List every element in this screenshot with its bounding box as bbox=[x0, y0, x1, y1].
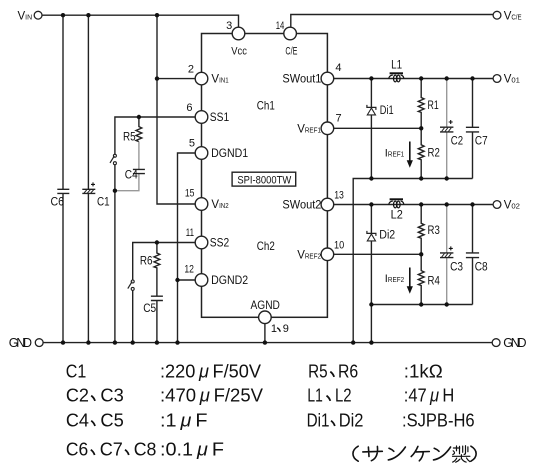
label R2 bbox=[428, 148, 440, 160]
resistor R2 bbox=[418, 128, 424, 178]
svg-text:DGND2: DGND2 bbox=[211, 273, 248, 287]
terminal V02 bbox=[493, 201, 501, 209]
wire Di2 branch to GND bbox=[370, 205, 372, 343]
svg-text:VIN1: VIN1 bbox=[211, 74, 228, 86]
label IREF1 bbox=[385, 147, 404, 159]
svg-text:R6: R6 bbox=[338, 361, 358, 382]
wire SWout1 to V01 bbox=[334, 78, 493, 80]
svg-text::47 μ H: :47 μ H bbox=[404, 385, 455, 406]
svg-text:R5: R5 bbox=[123, 131, 136, 143]
svg-text:13: 13 bbox=[334, 190, 344, 202]
switch S2 bbox=[128, 280, 134, 290]
resistor R4 bbox=[418, 254, 424, 304]
node label VIN bbox=[18, 10, 33, 22]
pin 3 circle bbox=[232, 27, 245, 40]
svg-text::1 μ F: :1 μ F bbox=[160, 410, 208, 431]
svg-text:Di1: Di1 bbox=[307, 410, 330, 431]
pin number 4 bbox=[335, 62, 341, 74]
terminal V01 bbox=[493, 75, 501, 83]
terminal GND left bbox=[35, 339, 43, 347]
svg-text:Di1: Di1 bbox=[380, 105, 394, 117]
resistor R1 bbox=[418, 79, 424, 129]
node SS1 at R5 bbox=[137, 115, 141, 119]
kanji sei (made) bbox=[453, 446, 470, 463]
label Ch1 bbox=[257, 99, 275, 113]
svg-text:9: 9 bbox=[283, 323, 289, 335]
pin 1,9 AGND circle bbox=[259, 311, 272, 324]
capacitor C3 (electrolytic) bbox=[440, 205, 453, 305]
svg-text:AGND: AGND bbox=[251, 300, 280, 312]
svg-text:C4: C4 bbox=[66, 410, 89, 431]
node GND rail ch1 bbox=[351, 340, 355, 344]
capacitor C4 bbox=[116, 142, 145, 191]
svg-text:IREF1: IREF1 bbox=[385, 147, 404, 159]
svg-text:C1: C1 bbox=[97, 197, 110, 209]
current arrow IREF1 bbox=[407, 142, 413, 168]
label C4 bbox=[125, 169, 138, 181]
pin name DGND2 bbox=[211, 273, 248, 287]
label R3 bbox=[428, 225, 440, 237]
node GND rail C1 bbox=[86, 340, 90, 344]
pin 12 circle bbox=[195, 274, 208, 287]
svg-text:DGND1: DGND1 bbox=[211, 146, 248, 160]
pin number 14 bbox=[276, 20, 285, 32]
svg-text:VIN: VIN bbox=[18, 10, 33, 22]
pin number 3 bbox=[226, 20, 232, 32]
node label V02 bbox=[504, 200, 520, 212]
pin name VIN2 bbox=[211, 199, 228, 211]
svg-text:C8: C8 bbox=[475, 261, 488, 273]
svg-text:SPI-8000TW: SPI-8000TW bbox=[237, 174, 291, 186]
terminal VC/E bbox=[493, 11, 501, 19]
legend label C2,C3 bbox=[66, 385, 124, 406]
svg-text:VREF2: VREF2 bbox=[297, 249, 321, 261]
inductor L2 bbox=[389, 199, 404, 208]
katakana sa bbox=[363, 446, 383, 460]
label Di1 bbox=[380, 105, 394, 117]
pin 5 circle bbox=[195, 147, 208, 160]
pin name SWout1 bbox=[282, 72, 321, 86]
pin name VIN1 bbox=[211, 74, 228, 86]
svg-text:C2: C2 bbox=[451, 135, 463, 147]
pin name AGND bbox=[251, 300, 280, 312]
legend value 47uH bbox=[404, 385, 455, 406]
node SWout1 Di1 bbox=[369, 76, 373, 80]
pin name SS1 bbox=[210, 110, 230, 124]
svg-text:C2: C2 bbox=[66, 385, 89, 406]
svg-text:L1: L1 bbox=[307, 385, 322, 406]
label C8 bbox=[475, 261, 488, 273]
label C1 bbox=[97, 197, 110, 209]
part label SPI-8000TW box bbox=[232, 172, 296, 186]
node rail1 C2 bbox=[445, 176, 449, 180]
label R5 bbox=[123, 131, 136, 143]
legend label L1,L2 bbox=[307, 385, 351, 406]
label C5 bbox=[143, 303, 156, 315]
svg-text:14: 14 bbox=[276, 20, 285, 32]
svg-text:Di2: Di2 bbox=[339, 410, 364, 431]
wire VIN1 stub bbox=[157, 78, 195, 80]
node SWout1 C2 bbox=[445, 76, 449, 80]
pin number 12 bbox=[184, 264, 194, 276]
svg-text:C8: C8 bbox=[134, 439, 157, 460]
svg-text:3: 3 bbox=[226, 20, 232, 32]
pin name VREF1 bbox=[297, 123, 321, 135]
pin number 7 bbox=[336, 112, 342, 124]
legend label R5,R6 bbox=[308, 361, 358, 382]
pin number 5 bbox=[189, 138, 195, 150]
label Di2 bbox=[379, 230, 395, 242]
node rail2 Di2 bbox=[369, 302, 373, 306]
svg-text::0.1 μ F: :0.1 μ F bbox=[160, 439, 224, 460]
katakana n bbox=[388, 447, 405, 460]
label C2 bbox=[451, 135, 463, 147]
node SWout1 C7 bbox=[470, 76, 474, 80]
svg-text:GND: GND bbox=[9, 336, 32, 350]
svg-text:Vcc: Vcc bbox=[231, 46, 247, 58]
diode Di1 (schottky) bbox=[367, 105, 376, 115]
capacitor C5 bbox=[151, 296, 163, 342]
pin 14 circle bbox=[284, 27, 297, 40]
svg-text:R3: R3 bbox=[428, 225, 440, 237]
label L1 bbox=[391, 59, 402, 71]
pin 10 circle bbox=[321, 248, 334, 261]
pin 15 circle bbox=[195, 198, 208, 211]
node top rail at C1 bbox=[86, 13, 90, 17]
capacitor C6 bbox=[57, 189, 69, 193]
node GND rail C6 bbox=[61, 340, 65, 344]
svg-text:L1: L1 bbox=[391, 59, 402, 71]
svg-text:VREF1: VREF1 bbox=[297, 123, 321, 135]
legend value 0.1uF bbox=[160, 439, 224, 460]
pin name SWout2 bbox=[282, 198, 321, 212]
svg-text:VIN2: VIN2 bbox=[211, 199, 228, 211]
wire C6 branch bbox=[62, 15, 64, 342]
inductor L1 bbox=[389, 73, 404, 82]
svg-text:1: 1 bbox=[271, 323, 277, 335]
resistor R5 bbox=[136, 117, 142, 142]
pin number 10 bbox=[334, 240, 344, 252]
svg-text:V02: V02 bbox=[504, 200, 520, 212]
svg-text:4: 4 bbox=[335, 62, 341, 74]
capacitor C2 (electrolytic) bbox=[440, 79, 453, 179]
pin number 11 bbox=[186, 227, 194, 239]
wire VIN rail drop to VIN1/VIN2 bbox=[157, 15, 195, 204]
label R6 bbox=[140, 256, 153, 268]
svg-text:L2: L2 bbox=[335, 385, 352, 406]
svg-text:Ch2: Ch2 bbox=[257, 239, 275, 253]
node SS2 at R6 bbox=[155, 240, 159, 244]
node SWout1 R1 bbox=[419, 76, 423, 80]
svg-text::1kΩ: :1kΩ bbox=[404, 361, 443, 382]
pin name C/E bbox=[285, 46, 297, 58]
wire VREF1 bbox=[334, 127, 422, 129]
svg-text:SWout1: SWout1 bbox=[282, 72, 321, 86]
svg-text:C1: C1 bbox=[66, 361, 87, 382]
pin 7 circle bbox=[321, 122, 334, 135]
wire pin 14 to VC/E terminal bbox=[291, 15, 493, 28]
fullwidth paren close bbox=[471, 446, 476, 461]
svg-text:6: 6 bbox=[186, 102, 192, 114]
label C6 bbox=[51, 197, 65, 209]
pin number 6 bbox=[186, 102, 192, 114]
wire GND bottom rail bbox=[43, 342, 492, 344]
node C4 bottom bbox=[113, 189, 117, 193]
node DGND junction bbox=[175, 278, 179, 282]
label R1 bbox=[428, 100, 439, 112]
svg-text:C3: C3 bbox=[450, 261, 463, 273]
label C7 bbox=[475, 135, 488, 147]
pin 13 circle bbox=[321, 198, 334, 211]
legend label C1 bbox=[66, 361, 87, 382]
label Ch2 bbox=[257, 239, 275, 253]
svg-text:VC/E: VC/E bbox=[504, 10, 522, 22]
svg-text:C5: C5 bbox=[143, 303, 156, 315]
pin number 13 bbox=[334, 190, 344, 202]
label R4 bbox=[428, 275, 441, 287]
svg-text:11: 11 bbox=[186, 227, 194, 239]
svg-text::220 μ F/50V: :220 μ F/50V bbox=[160, 361, 261, 382]
wire channel1 lower rail bbox=[353, 179, 472, 343]
wire SS2 to switch branch bbox=[133, 243, 196, 343]
svg-text:C7: C7 bbox=[100, 439, 123, 460]
wire Di1 branch bbox=[370, 79, 372, 179]
legend label C4,C5 bbox=[66, 410, 124, 431]
capacitor C8 bbox=[466, 205, 479, 305]
svg-text:C4: C4 bbox=[125, 169, 138, 181]
capacitor C7 bbox=[466, 79, 479, 179]
node label V01 bbox=[504, 74, 520, 86]
node GND rail S2 bbox=[131, 340, 135, 344]
svg-text:C6: C6 bbox=[66, 439, 88, 460]
node label VC/E bbox=[504, 10, 522, 22]
label C3 bbox=[450, 261, 463, 273]
pin 2 circle bbox=[195, 72, 208, 85]
node VIN1 stub bbox=[155, 76, 159, 80]
node rail2 R4 bbox=[419, 302, 423, 306]
node rail1 Di1 bbox=[369, 176, 373, 180]
svg-text:15: 15 bbox=[185, 188, 195, 200]
svg-text:R5: R5 bbox=[308, 361, 328, 382]
pin name Vcc bbox=[231, 46, 247, 58]
terminal VIN bbox=[34, 11, 42, 19]
svg-text:Di2: Di2 bbox=[379, 230, 395, 242]
svg-text:2: 2 bbox=[188, 64, 194, 76]
svg-text:V01: V01 bbox=[504, 74, 520, 86]
node GND rail ch2 bbox=[369, 340, 373, 344]
node SWout2 R3 bbox=[419, 202, 423, 206]
wire channel2 lower rail bbox=[371, 304, 472, 306]
node top rail at VIN drop bbox=[155, 13, 159, 17]
wire SWout2 to V02 bbox=[334, 204, 493, 206]
pin number 15 bbox=[185, 188, 195, 200]
node GND rail C5 bbox=[155, 340, 159, 344]
svg-text::470 μ F/25V: :470 μ F/25V bbox=[160, 385, 263, 406]
pin 11 circle bbox=[195, 236, 208, 249]
svg-text:7: 7 bbox=[336, 112, 342, 124]
svg-text:C3: C3 bbox=[100, 385, 123, 406]
legend value 470uF/25V bbox=[160, 385, 263, 406]
svg-text:IREF2: IREF2 bbox=[385, 273, 404, 285]
svg-text:C5: C5 bbox=[100, 410, 123, 431]
fullwidth paren open bbox=[353, 446, 358, 461]
pin number 2 bbox=[188, 64, 194, 76]
node SWout2 C3 bbox=[445, 202, 449, 206]
node SWout2 Di2 bbox=[369, 202, 373, 206]
svg-text:5: 5 bbox=[189, 138, 195, 150]
node rail2 C3 bbox=[445, 302, 449, 306]
katakana ke bbox=[411, 446, 429, 460]
svg-text:R1: R1 bbox=[428, 100, 439, 112]
pin name DGND1 bbox=[211, 146, 248, 160]
svg-text:L2: L2 bbox=[391, 209, 403, 221]
pin 6 circle bbox=[195, 111, 208, 124]
legend label C6,C7,C8 bbox=[66, 439, 156, 460]
svg-text::SJPB-H6: :SJPB-H6 bbox=[402, 410, 475, 431]
node VREF2 R3R4 bbox=[419, 252, 423, 256]
diode Di2 (schottky) bbox=[367, 231, 376, 241]
legend value 1k ohm bbox=[404, 361, 443, 382]
wire VREF2 bbox=[334, 253, 422, 255]
wire DGND1 bbox=[178, 153, 196, 343]
wire C1 branch bbox=[87, 15, 89, 342]
node label GND right bbox=[503, 336, 526, 350]
svg-text:C6: C6 bbox=[51, 197, 65, 209]
pin number 1,9 bbox=[271, 323, 289, 335]
node GND rail S1 bbox=[113, 340, 117, 344]
pin 4 circle bbox=[321, 72, 334, 85]
svg-text:R2: R2 bbox=[428, 148, 440, 160]
svg-text:12: 12 bbox=[184, 264, 194, 276]
node GND rail AGND bbox=[263, 340, 267, 344]
node top rail at C6 bbox=[61, 13, 65, 17]
legend value SJPB-H6 bbox=[402, 410, 475, 431]
wire AGND lead bbox=[264, 324, 266, 343]
node SWout2 C8 bbox=[470, 202, 474, 206]
wire DGND2 bbox=[178, 279, 196, 281]
wire top VIN rail to pin 3 bbox=[42, 15, 239, 27]
node label GND left bbox=[9, 336, 32, 350]
label L2 bbox=[391, 209, 403, 221]
svg-text:SS1: SS1 bbox=[210, 110, 230, 124]
svg-text:Ch1: Ch1 bbox=[257, 99, 275, 113]
svg-text:C7: C7 bbox=[475, 135, 488, 147]
legend label Di1,Di2 bbox=[307, 410, 364, 431]
svg-text:C/E: C/E bbox=[285, 46, 297, 58]
legend value 220uF/50V bbox=[160, 361, 261, 382]
node GND rail DGND bbox=[175, 340, 179, 344]
wire SS1 to switch branch bbox=[115, 117, 195, 343]
node rail1 R2 bbox=[419, 176, 423, 180]
svg-text:SWout2: SWout2 bbox=[282, 198, 321, 212]
pin name SS2 bbox=[210, 236, 230, 250]
svg-text:R4: R4 bbox=[428, 275, 441, 287]
switch S1 bbox=[110, 154, 116, 164]
terminal GND right bbox=[492, 339, 500, 347]
pin name VREF2 bbox=[297, 249, 321, 261]
node VREF1 R1R2 bbox=[419, 126, 423, 130]
legend value 1uF bbox=[160, 410, 208, 431]
svg-text:10: 10 bbox=[334, 240, 344, 252]
svg-text:GND: GND bbox=[503, 336, 526, 350]
resistor R3 bbox=[418, 205, 424, 255]
capacitor C1 (electrolytic) bbox=[82, 182, 95, 193]
resistor R6 bbox=[154, 243, 160, 297]
current arrow IREF2 bbox=[407, 268, 413, 294]
svg-text:SS2: SS2 bbox=[210, 236, 230, 250]
IC body SPI-8000TW bbox=[202, 34, 328, 318]
label IREF2 bbox=[385, 273, 404, 285]
svg-text:R6: R6 bbox=[140, 256, 153, 268]
katakana n 2 bbox=[434, 447, 451, 460]
legend maker (Sanken) hand-drawn CJK bbox=[353, 446, 476, 463]
